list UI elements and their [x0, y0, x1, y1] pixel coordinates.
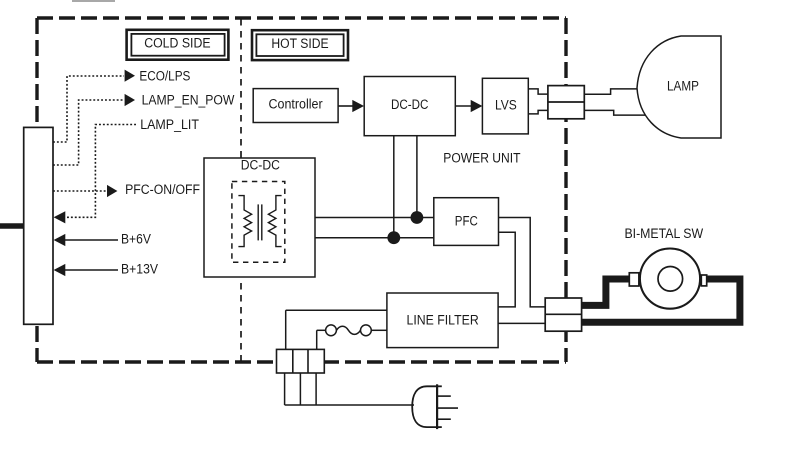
svg-text:BI-METAL SW: BI-METAL SW [624, 226, 703, 241]
svg-text:Controller: Controller [269, 97, 324, 112]
svg-text:ECO/LPS: ECO/LPS [139, 68, 190, 83]
svg-text:LVS: LVS [495, 97, 517, 112]
svg-text:LAMP_EN_POW: LAMP_EN_POW [142, 93, 235, 108]
svg-text:PFC: PFC [455, 214, 478, 229]
svg-text:LAMP_LIT: LAMP_LIT [140, 117, 199, 132]
svg-text:DC-DC: DC-DC [391, 97, 429, 112]
svg-text:B+6V: B+6V [121, 231, 151, 246]
svg-text:DC-DC: DC-DC [241, 157, 280, 172]
svg-text:POWER UNIT: POWER UNIT [443, 151, 520, 166]
svg-text:PFC-ON/OFF: PFC-ON/OFF [125, 182, 200, 197]
svg-text:LINE FILTER: LINE FILTER [407, 312, 480, 327]
svg-text:HOT SIDE: HOT SIDE [271, 36, 328, 51]
svg-text:COLD SIDE: COLD SIDE [144, 35, 210, 50]
svg-text:B+13V: B+13V [121, 261, 158, 276]
svg-text:LAMP: LAMP [667, 79, 699, 94]
